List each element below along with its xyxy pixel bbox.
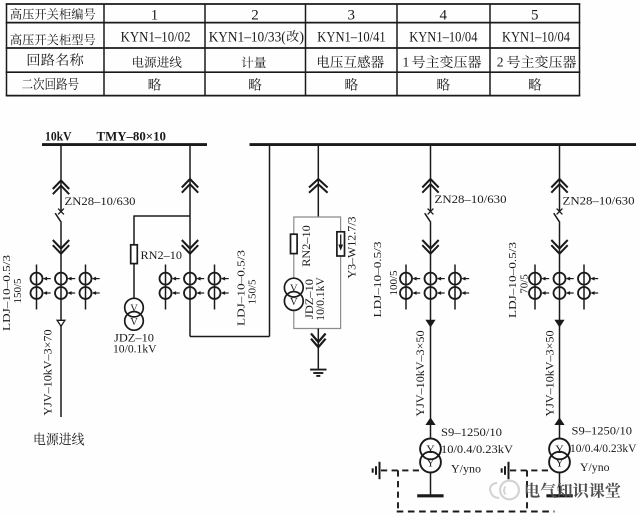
ground electrode (dashed PE) [508, 462, 510, 479]
drawout contact (feeder 3) [309, 179, 328, 193]
svg-text:S9–1250/10: S9–1250/10 [572, 424, 633, 438]
fuse RN2-10 (feeder 3) [291, 234, 298, 253]
table row label: circuit name [28, 53, 84, 66]
svg-text:KYN1–10/02: KYN1–10/02 [121, 29, 191, 45]
wire: box to ground [317, 329, 319, 369]
svg-text:10/0.4/0.23kV: 10/0.4/0.23kV [441, 442, 513, 456]
svg-text:10kV: 10kV [45, 130, 72, 144]
svg-text:10/0.4/0.23kV: 10/0.4/0.23kV [570, 441, 637, 455]
drawout contact upper (feeder 1) [53, 181, 69, 195]
fuse RN2-10 (feeder 2) [131, 245, 138, 264]
svg-text:ZN28–10/630: ZN28–10/630 [563, 194, 635, 208]
wire: fuse to VT [133, 264, 135, 299]
table row label: cabinet number [10, 8, 95, 20]
table row label: cabinet model [10, 34, 95, 46]
svg-text:Y3–W12.7/3: Y3–W12.7/3 [346, 216, 358, 278]
svg-text:V: V [130, 317, 138, 328]
drawout contact lower [551, 240, 567, 254]
cable head (feeder 1) [57, 320, 65, 326]
svg-text:V: V [130, 304, 138, 315]
LV busbar [546, 494, 572, 497]
wire: feeder 1 upper [60, 146, 62, 211]
circuit breaker ZN28-10/630 [557, 209, 563, 215]
drawout contact lower [422, 240, 438, 254]
svg-text:3: 3 [348, 8, 356, 24]
table row label: secondary circuit no. [22, 78, 79, 91]
svg-text:10/0.1kV: 10/0.1kV [113, 344, 157, 356]
surge arrester Y3-W12.7/3 [337, 232, 345, 256]
wire: branch to fuse [133, 215, 190, 217]
transformer S9-1250/10 [549, 439, 570, 460]
circuit name: power incoming [133, 56, 182, 68]
svg-text:100/5: 100/5 [388, 270, 400, 296]
svg-text:150/5: 150/5 [12, 278, 24, 304]
svg-text:Y: Y [555, 444, 564, 456]
svg-text:KYN1–10/04: KYN1–10/04 [502, 29, 571, 45]
svg-text:2: 2 [497, 55, 504, 70]
svg-text:V: V [290, 297, 298, 308]
label power incoming (bottom) [35, 433, 85, 446]
wire: feeder upper [559, 146, 561, 211]
svg-text:1: 1 [403, 55, 410, 70]
svg-text:70/5: 70/5 [519, 274, 531, 294]
cable head lower [427, 419, 435, 425]
svg-text:RN2–10: RN2–10 [141, 250, 183, 262]
dashed PE wire horizontal [510, 469, 549, 471]
CT group feeder 1 [31, 265, 100, 310]
svg-text:1: 1 [151, 8, 159, 24]
svg-text:LDJ–10–0.5/3: LDJ–10–0.5/3 [507, 241, 519, 318]
drawout contact lower (feeder 2) [182, 240, 198, 254]
VT JDZ-10 (feeder 2) [125, 298, 144, 317]
svg-text:): ) [299, 29, 304, 45]
dashed PE wire vertical [397, 470, 399, 511]
svg-text:LDJ–10–0.5/3: LDJ–10–0.5/3 [1, 254, 13, 331]
wire: metering loop bottom [190, 336, 270, 338]
wire: feeder 1 lower [60, 223, 62, 417]
dashed PE wire horizontal [381, 469, 420, 471]
svg-text:LDJ–10–0.5/3: LDJ–10–0.5/3 [372, 241, 384, 318]
wire: transformer to LV bar [559, 473, 561, 495]
svg-text:2: 2 [251, 8, 259, 24]
ground electrode (dashed PE) [379, 462, 381, 479]
wire: feeder upper [430, 146, 432, 211]
dashed PE wire vertical [526, 470, 528, 511]
svg-text:ZN28–10/630: ZN28–10/630 [435, 192, 507, 206]
wire: feeder lower [559, 223, 561, 439]
drawout contact lower (feeder 1) [53, 240, 69, 254]
svg-text:150/5: 150/5 [246, 279, 258, 305]
CT group [400, 265, 469, 310]
cable head lower [556, 419, 564, 425]
svg-text:Y/yno: Y/yno [451, 462, 481, 476]
wire: feeder lower [430, 223, 432, 439]
circuit name: metering [242, 56, 266, 68]
wire: feeder 3 drop [317, 146, 319, 217]
svg-text:10/0.1kV: 10/0.1kV [315, 277, 327, 321]
busbar section I 10kV [42, 143, 207, 146]
VT JDZ-10 (feeder 3) [284, 278, 303, 297]
svg-text:JDZ–10: JDZ–10 [304, 279, 316, 319]
svg-text:KYN1–10/33(: KYN1–10/33( [209, 29, 286, 45]
watermark logo [490, 481, 519, 500]
svg-text:YJV–10kV–3×50: YJV–10kV–3×50 [415, 330, 427, 416]
cabinet numbers 1-5 [151, 8, 539, 24]
cabinet outline box [294, 217, 341, 329]
drawout contact below box (feeder 3) [311, 334, 326, 348]
svg-text:YJV–10kV–3×50: YJV–10kV–3×50 [544, 330, 556, 416]
table grid [6, 4, 581, 96]
drawout contact upper (feeder 2) [182, 179, 198, 193]
drawout contact upper [551, 179, 567, 193]
ground (feeder 3) [310, 369, 326, 371]
svg-text:Y: Y [555, 457, 564, 469]
cable head upper [556, 320, 564, 326]
watermark text dianqi zhishi ketang [526, 483, 621, 499]
circuit breaker ZN28-10/630 (feeder 1) [58, 209, 64, 215]
wire: transformer to LV bar [430, 473, 432, 495]
CT group [529, 265, 598, 310]
svg-text:Y: Y [426, 457, 435, 469]
svg-text:V: V [290, 284, 298, 295]
wire: feeder 2 main [189, 146, 191, 337]
svg-text:ZN28–10/630: ZN28–10/630 [65, 194, 136, 208]
transformer S9-1250/10 [420, 439, 441, 460]
svg-text:KYN1–10/41: KYN1–10/41 [317, 29, 385, 45]
secondary circuit omitted marks [149, 78, 542, 91]
svg-text:4: 4 [440, 8, 448, 24]
svg-text:KYN1–10/04: KYN1–10/04 [409, 29, 478, 45]
svg-text:S9–1250/10: S9–1250/10 [441, 425, 502, 439]
svg-text:TMY–80×10: TMY–80×10 [97, 130, 167, 144]
svg-text:RN2–10: RN2–10 [301, 225, 313, 267]
svg-text:YJV–10kV–3×70: YJV–10kV–3×70 [42, 329, 54, 415]
svg-text:Y/yno: Y/yno [580, 460, 610, 474]
LV busbar [417, 494, 443, 497]
circuit name: voltage transformer [318, 55, 384, 68]
cable head upper [427, 320, 435, 326]
svg-text:5: 5 [531, 8, 539, 24]
busbar section II [250, 143, 637, 146]
dashed PE bottom run [397, 511, 555, 513]
svg-text:Y: Y [426, 444, 435, 456]
circuit breaker ZN28-10/630 [428, 209, 434, 215]
CT group feeder 2 [160, 265, 229, 310]
wire: metering return to bus II [269, 146, 271, 337]
drawout contact upper [422, 179, 438, 193]
